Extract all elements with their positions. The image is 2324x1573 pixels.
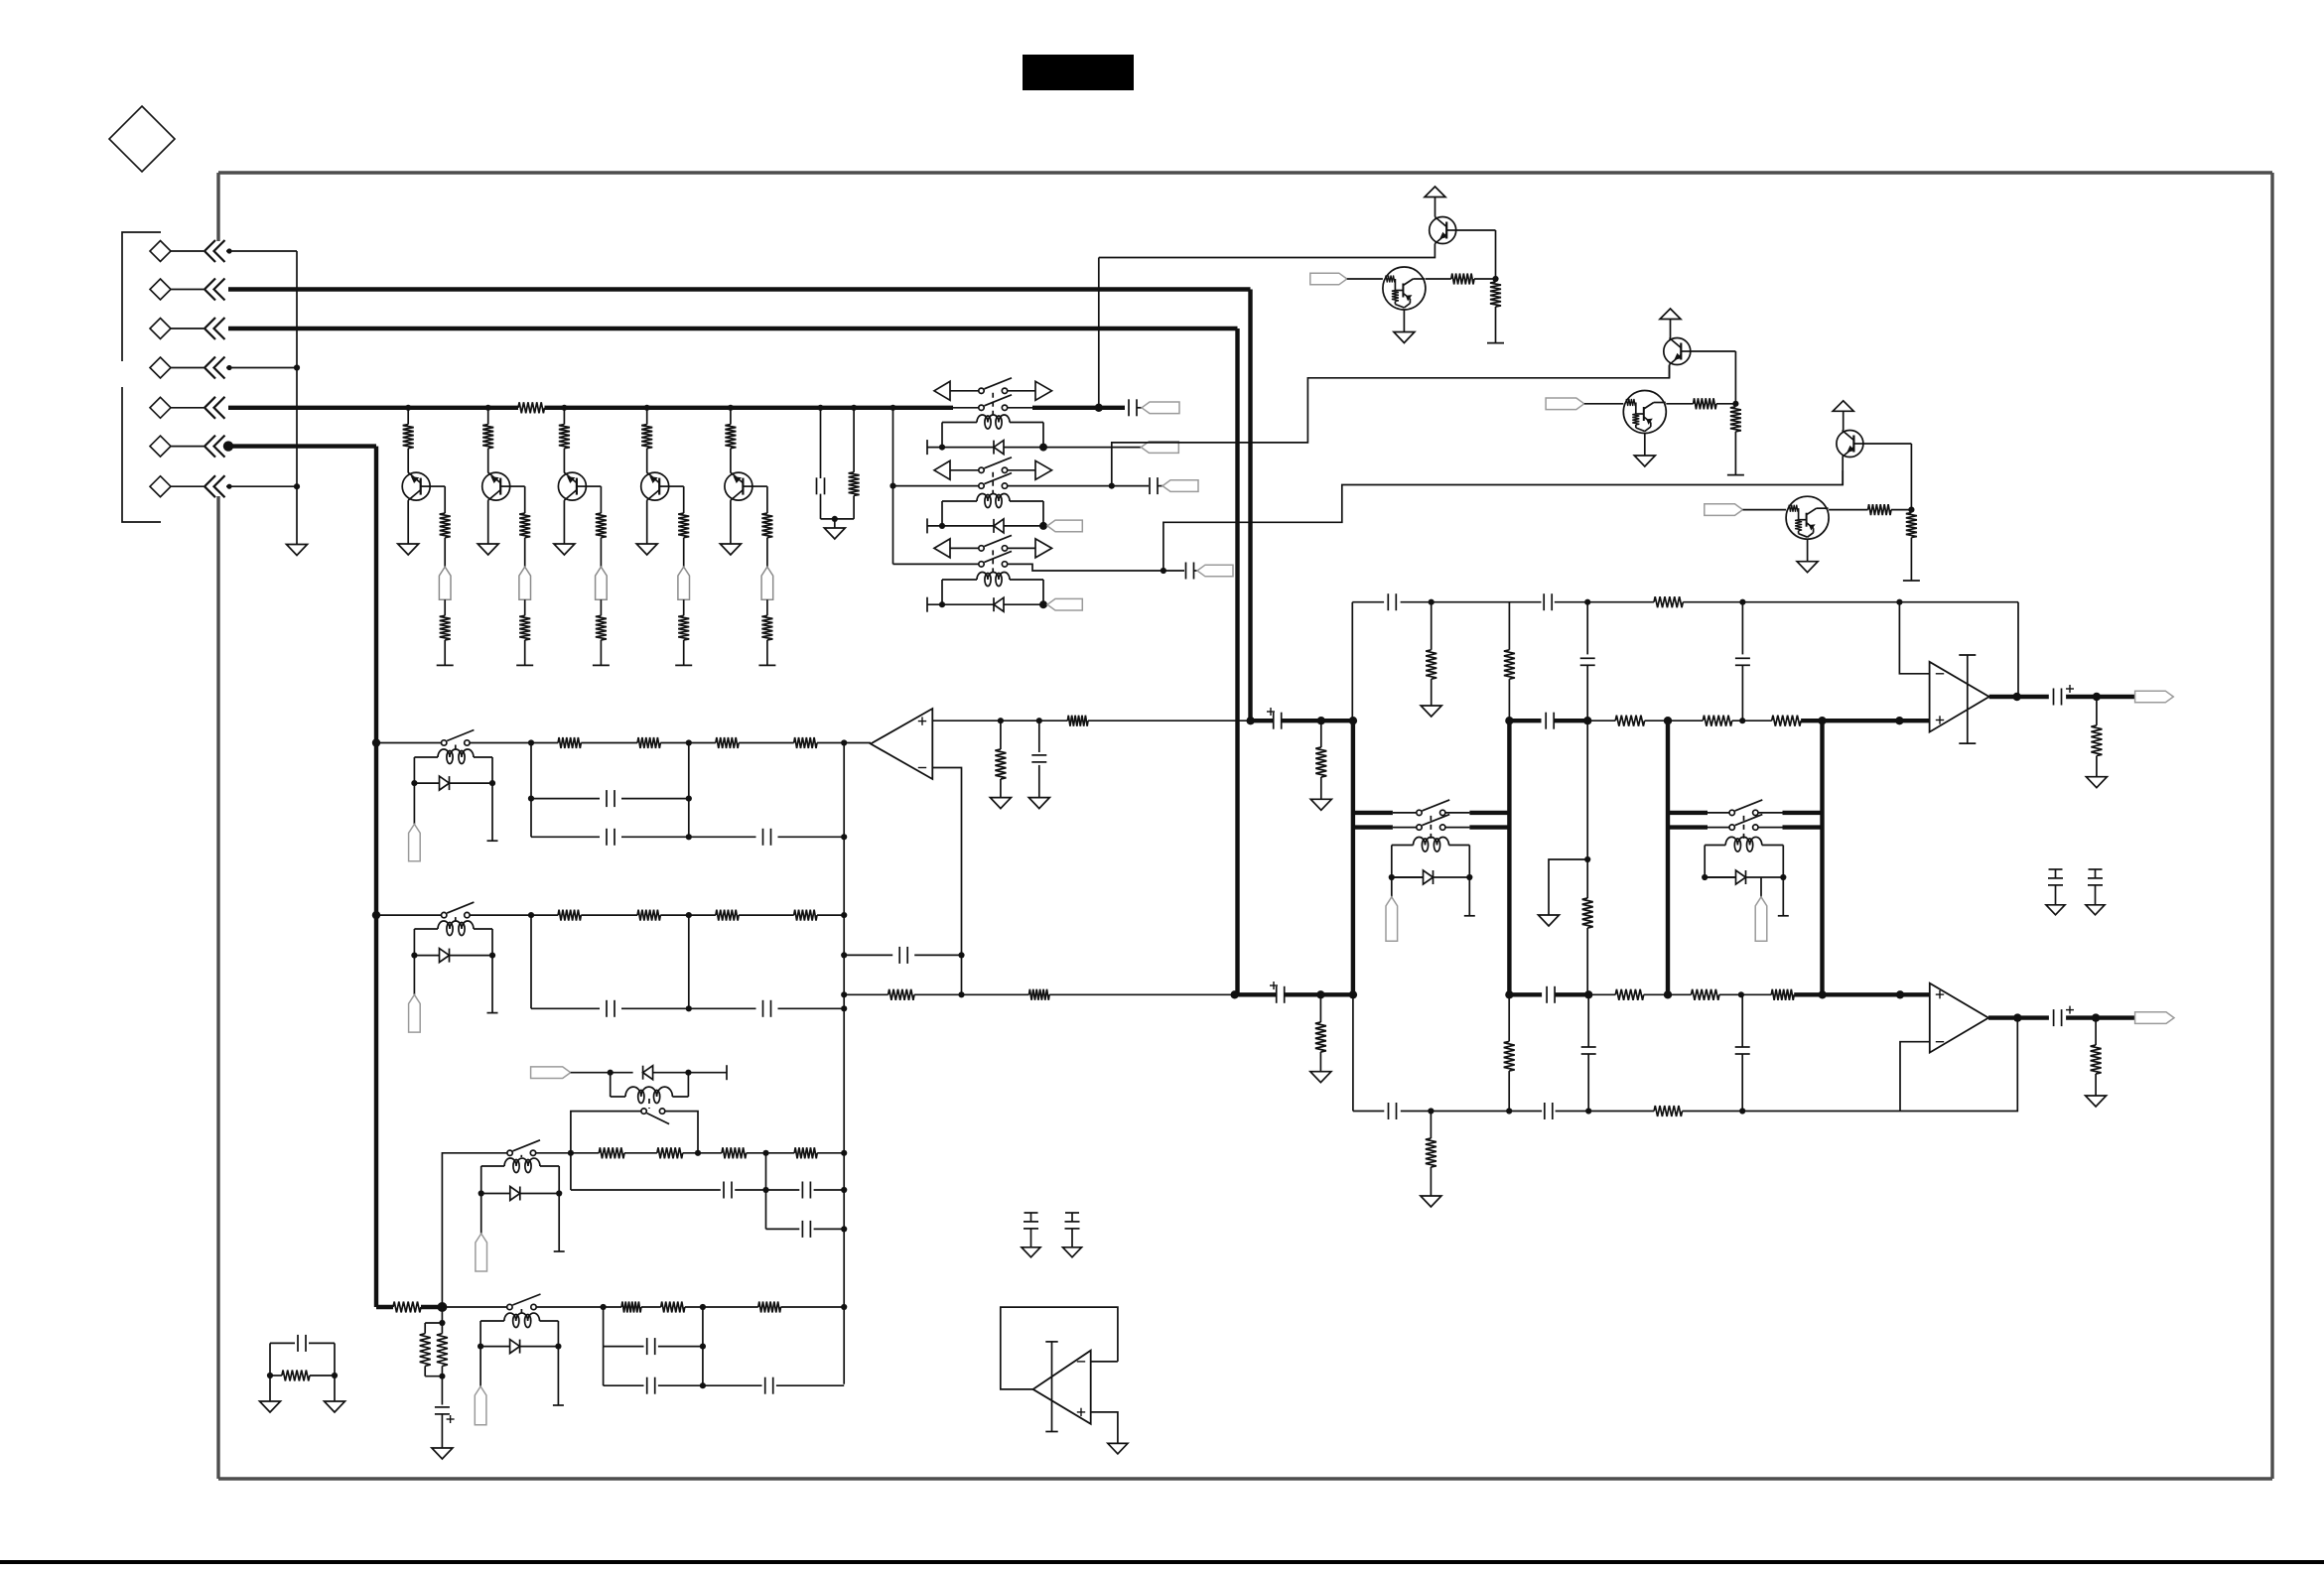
transistor Q3 bbox=[558, 472, 586, 500]
wire Re2-end bbox=[524, 640, 526, 666]
node row3 j0 bbox=[568, 1150, 574, 1156]
node row3 j4 bbox=[841, 1150, 847, 1156]
relay KF2 coil bbox=[1725, 837, 1762, 845]
relay KY coil bbox=[504, 1313, 540, 1321]
wire rowEQB start bbox=[376, 914, 442, 916]
wire Q21 emitter bbox=[1403, 310, 1405, 332]
wire up row thick a bbox=[1282, 719, 1353, 722]
terminal T2 bbox=[516, 664, 533, 666]
wire x1441 low branch bbox=[1430, 1112, 1432, 1139]
node K3 a bbox=[939, 601, 945, 607]
transistor Q1 bbox=[402, 472, 430, 500]
wire x1599 gnd arm bbox=[1549, 859, 1587, 915]
wire Q2 collector bbox=[510, 485, 525, 487]
wire U3 out (thick) bbox=[1988, 1015, 2049, 1019]
node bus Q1 bbox=[405, 405, 411, 411]
wire K3 diode row bbox=[927, 603, 994, 605]
wire row1 bbox=[226, 250, 297, 252]
node capr Y1 b bbox=[700, 1344, 706, 1350]
wire x707.9 link bbox=[702, 1307, 704, 1385]
diode D1 bbox=[994, 441, 1004, 455]
tag flag IN2 bbox=[1546, 398, 1584, 410]
tag KAs bbox=[409, 824, 421, 860]
ground G21 bbox=[1310, 1072, 1331, 1083]
node rc a bbox=[267, 1373, 273, 1378]
node capr L2 b bbox=[841, 1226, 847, 1232]
resistor RU1 bbox=[1067, 716, 1088, 726]
wire KF2 row2 (thick) bbox=[1668, 825, 1708, 829]
ground G50 bbox=[432, 1448, 453, 1459]
relay K2 dashed link bbox=[992, 472, 994, 493]
wire col x1362.9 (thick) bbox=[1351, 721, 1355, 994]
wire U2 out b (thick) bbox=[2066, 695, 2135, 699]
connector J1 pin 5 diamond bbox=[150, 397, 171, 418]
wire Q12 base bbox=[1691, 350, 1736, 352]
node low row j6 bbox=[1738, 991, 1744, 997]
wire C11-tag bbox=[1137, 407, 1142, 409]
wire RG41 bbox=[2095, 1018, 2097, 1045]
capacitor C12 bbox=[1149, 477, 1151, 494]
wire row2 drop (thick) bbox=[1248, 290, 1252, 721]
resistor Rc3 bbox=[596, 513, 607, 538]
wire row5 c bbox=[685, 1306, 758, 1308]
resistor Re4 bbox=[678, 615, 689, 640]
relay K3 frame bbox=[941, 580, 943, 604]
wire top row bbox=[1352, 601, 1384, 603]
node capr A2 m bbox=[686, 834, 692, 840]
wire arrows K2 bbox=[950, 469, 979, 471]
wire row4 bbox=[226, 367, 297, 369]
wire low row in (thick) bbox=[1235, 992, 1277, 996]
relay KY frame bbox=[479, 1321, 481, 1347]
wire row3 e bbox=[817, 1152, 844, 1154]
tag TP3 bbox=[1197, 565, 1233, 577]
wire capr L2 bbox=[766, 1228, 800, 1230]
wire U1 +row b bbox=[1088, 720, 1251, 721]
resistor RL1 bbox=[889, 989, 914, 1000]
wire KX left contact bbox=[571, 1112, 641, 1153]
op-amp U1 bbox=[871, 709, 932, 779]
wire x771 link bbox=[765, 1153, 767, 1230]
node bot row j3 bbox=[1585, 1108, 1591, 1114]
capacitor CL1 bbox=[723, 1182, 725, 1199]
wire KF1 row2 links bbox=[1393, 827, 1417, 829]
node row4/x299 bbox=[294, 364, 300, 370]
wire rowEQB d bbox=[739, 914, 794, 916]
node low row j7 bbox=[1819, 990, 1827, 998]
wire Q23 emitter bbox=[1807, 539, 1809, 562]
wire C13 lead bbox=[1163, 570, 1184, 572]
wire U4 +in bbox=[1091, 1412, 1118, 1443]
terminal T3 bbox=[593, 664, 610, 666]
relay KAs dashed bbox=[455, 745, 457, 750]
footer rule bbox=[0, 1560, 2324, 1564]
wire U3 out b (thick) bbox=[2066, 1015, 2135, 1019]
node KX b bbox=[685, 1070, 691, 1076]
tag OUT2 bbox=[2135, 1012, 2174, 1024]
connector J1 pin 2 wire bbox=[171, 289, 204, 291]
node N60 big bbox=[437, 1302, 447, 1312]
relay KBs frame bbox=[413, 929, 415, 956]
relay KY dashed bbox=[520, 1309, 522, 1313]
node low row j2 bbox=[1349, 990, 1357, 998]
wire opamp feed bbox=[844, 742, 871, 744]
switch KZ bbox=[507, 1150, 512, 1155]
node top row j3 bbox=[1739, 599, 1745, 605]
node row3 j2 bbox=[702, 1152, 704, 1154]
wire Q3 emitter bbox=[563, 500, 565, 544]
node div bottom bbox=[439, 1374, 445, 1379]
title block (black bar) bbox=[1023, 55, 1134, 90]
resistor R3c bbox=[722, 1147, 747, 1158]
wire F4-Re4 bbox=[683, 599, 685, 615]
wire C12-tag bbox=[1158, 485, 1162, 487]
node bus C-R b bbox=[851, 405, 857, 411]
terminal KY bbox=[553, 1404, 564, 1406]
node bot row j1 bbox=[1428, 1108, 1434, 1114]
switch KAs bbox=[442, 740, 447, 745]
diode DX bbox=[643, 1066, 653, 1080]
node rowEQA j2 bbox=[841, 739, 847, 745]
wire bus-switch link bbox=[953, 407, 979, 409]
node K2 b bbox=[1039, 522, 1047, 530]
wire KAs tag lead bbox=[413, 783, 415, 824]
diode DAs bbox=[440, 776, 450, 790]
wire capr Y1 bbox=[603, 1307, 605, 1347]
wire to ground G2 bbox=[834, 519, 836, 528]
wire KF1 diode row bbox=[1392, 876, 1427, 878]
wire up row d bbox=[1587, 720, 1615, 721]
node KBs a bbox=[411, 953, 417, 959]
ground G40 bbox=[2046, 905, 2065, 915]
connector J1 pin 4 diamond bbox=[150, 357, 171, 378]
wire div top bbox=[441, 1307, 443, 1323]
ground Q1 bbox=[398, 544, 419, 555]
node N11 bbox=[1492, 276, 1498, 282]
relay KBs dashed bbox=[455, 917, 457, 921]
wire rowEQB c bbox=[660, 914, 716, 916]
wire U2 fb right bbox=[2017, 602, 2019, 697]
node pin6 big dot bbox=[223, 441, 233, 451]
resistor R3a bbox=[599, 1147, 624, 1158]
switch K3 main bbox=[979, 562, 984, 567]
node U1 j2 bbox=[1036, 718, 1042, 723]
node KZ b bbox=[556, 1190, 562, 1196]
tag KY bbox=[475, 1386, 486, 1425]
wire row6 (thick) bbox=[228, 444, 376, 448]
node bot row j4 bbox=[1739, 1108, 1745, 1114]
relay KX frame bbox=[610, 1073, 612, 1097]
switch K1 main bbox=[979, 405, 984, 410]
switch KF2 s1 bbox=[1729, 810, 1734, 815]
wire KBs tbar lead bbox=[491, 956, 493, 1013]
jumper F1 bbox=[439, 567, 451, 599]
node row5 j1 bbox=[601, 1304, 607, 1310]
node up row j4b bbox=[1505, 717, 1513, 724]
resistor RL2 bbox=[1029, 989, 1050, 1000]
relay KF2 dashed bbox=[1743, 816, 1745, 839]
connector J1 pin 2 diamond bbox=[150, 279, 171, 300]
wire low row thick b bbox=[1509, 992, 1542, 996]
switch KY bbox=[507, 1304, 512, 1309]
wire K3 row bbox=[893, 563, 980, 565]
connector J1 pin 6 chevrons bbox=[205, 436, 215, 458]
node KY b bbox=[555, 1344, 561, 1350]
digital transistor Q22 bbox=[1623, 391, 1666, 434]
relay K2 frame bbox=[941, 501, 943, 526]
wire R11b tail bbox=[1495, 307, 1497, 343]
wire R10 lead bbox=[853, 408, 855, 472]
wire Q5 collector bbox=[752, 485, 767, 487]
wire Rc1-F1 bbox=[444, 538, 446, 567]
wire C13-tag bbox=[1194, 570, 1197, 572]
tag flag IN3 bbox=[1705, 504, 1743, 516]
wire rowEQA d bbox=[739, 742, 794, 744]
connector J1 pin 4 chevrons bbox=[205, 357, 215, 379]
node rowEQB j1 bbox=[528, 912, 534, 918]
wire x1755 upper link bbox=[1741, 602, 1743, 655]
node up row j1 bbox=[1317, 717, 1325, 724]
switch KF1 s1 bbox=[1417, 810, 1422, 815]
wire x1362.9 low link bbox=[1352, 994, 1354, 1111]
wire rowEQA e bbox=[817, 742, 844, 744]
wire KBs diode row bbox=[414, 955, 440, 957]
resistor R60 bbox=[393, 1302, 421, 1313]
node rowEQB feed bbox=[372, 911, 380, 919]
ground G13 bbox=[1797, 562, 1818, 573]
relay KF2 frame bbox=[1704, 846, 1706, 878]
diode DKF1 bbox=[1392, 876, 1424, 878]
node row7/x299 bbox=[294, 483, 300, 489]
wire Re1-end bbox=[444, 640, 446, 666]
wire KF1 tbar bbox=[1468, 877, 1470, 916]
wire bus row5 left (thick) bbox=[228, 406, 518, 410]
relay KZ frame bbox=[480, 1166, 482, 1194]
connector J1 pin 4 wire bbox=[171, 367, 204, 369]
tag KF2 bbox=[1760, 877, 1762, 897]
wire up row thick g bbox=[1801, 719, 1930, 722]
capacitor CG51 bbox=[1071, 1213, 1073, 1222]
wire R10 bottom bbox=[853, 495, 855, 519]
wire Q5 emitter bbox=[730, 500, 732, 544]
relay KX dashed bbox=[648, 1099, 650, 1109]
resistor R23 bbox=[1772, 716, 1801, 726]
resistor RAd bbox=[794, 737, 817, 748]
diode D3 bbox=[994, 597, 1004, 611]
capacitor C11 bbox=[1128, 399, 1130, 416]
resistor R11b bbox=[1490, 282, 1501, 307]
wire row6 to node (thick) bbox=[421, 1305, 442, 1309]
capacitor C30 bbox=[1387, 593, 1389, 610]
tag TP1 bbox=[1142, 402, 1179, 414]
node up row j2 bbox=[1349, 717, 1357, 724]
node KF1 b bbox=[1466, 874, 1472, 880]
relay K2 coil bbox=[977, 494, 1010, 501]
op-amp U4 bbox=[1033, 1351, 1091, 1424]
wire U2 out (thick) bbox=[1989, 695, 2049, 699]
wire U3 fb right bbox=[1900, 1018, 2017, 1112]
wire row3 c bbox=[683, 1152, 722, 1154]
wire row6 drop (thick) bbox=[374, 447, 378, 1307]
node bus Q5 bbox=[728, 405, 734, 411]
wire Q1 collector bbox=[430, 485, 445, 487]
resistor R5a bbox=[621, 1302, 641, 1313]
terminal KX bbox=[726, 1065, 728, 1080]
wire K3 ctrl riser bbox=[1163, 470, 1843, 571]
node capr A1 b bbox=[686, 796, 692, 802]
capacitor C31 bbox=[1543, 593, 1545, 610]
node lower row m bbox=[958, 991, 964, 997]
wire K1 diode row bbox=[927, 447, 994, 449]
wire to C50 bbox=[441, 1376, 443, 1405]
connector J1 pin 1 chevrons bbox=[205, 240, 215, 262]
relay KAs frame bbox=[413, 757, 415, 783]
wire vert x850 bbox=[843, 743, 845, 1384]
arrow right K1 bbox=[1035, 381, 1052, 400]
node capr Y2 b bbox=[843, 1383, 845, 1385]
wire row3 start bbox=[442, 1153, 507, 1307]
connector J1 pin 3 wire bbox=[171, 328, 204, 329]
resistor R31 bbox=[1654, 1106, 1682, 1116]
wire KAs tbar lead bbox=[491, 783, 493, 841]
wire KZ tbar lead bbox=[558, 1194, 560, 1252]
wire Re5-end bbox=[766, 640, 768, 666]
node KAs b bbox=[489, 780, 495, 786]
tag flag IN1 bbox=[1310, 273, 1347, 285]
wire row6 bottom (thick) bbox=[376, 1305, 393, 1309]
terminal KBs bbox=[487, 1012, 498, 1014]
relay KF1 coil bbox=[1414, 838, 1449, 846]
terminal T4 bbox=[675, 664, 692, 666]
node capr L1 b bbox=[841, 1187, 847, 1193]
node bus C-R a bbox=[817, 405, 823, 411]
wire col x1835.5 (thick) bbox=[1820, 721, 1824, 994]
wire KBs tag lead bbox=[413, 956, 415, 995]
resistor Rb5 bbox=[730, 408, 732, 425]
ground G40 bbox=[2086, 777, 2107, 788]
wire row5 d bbox=[781, 1306, 845, 1308]
arrow right K3 bbox=[1035, 539, 1052, 558]
wire rowEQB e bbox=[817, 914, 844, 916]
node up row j3 bbox=[1583, 717, 1591, 724]
wire rowEQA start bbox=[376, 742, 442, 744]
resistor RBd bbox=[794, 910, 817, 921]
wire rowEQB b bbox=[581, 914, 637, 916]
wire low row thick c bbox=[1556, 992, 1589, 996]
connector J1 bracket bbox=[122, 232, 161, 361]
wire Rc3-F3 bbox=[600, 538, 602, 567]
node div top bbox=[439, 1320, 445, 1326]
wire div bracket top bbox=[425, 1322, 442, 1324]
ground Q3 bbox=[554, 544, 575, 555]
wire F5-Re5 bbox=[766, 599, 768, 615]
resistor R30 bbox=[1654, 596, 1683, 607]
capacitor C50+ bbox=[435, 1406, 450, 1408]
wire low row d bbox=[1588, 993, 1615, 995]
ground G12 bbox=[1634, 456, 1655, 466]
wire Re4-end bbox=[683, 640, 685, 666]
wire lower row c bbox=[1049, 993, 1235, 995]
resistor R26 bbox=[1771, 989, 1794, 1000]
relay KAs coil bbox=[438, 749, 474, 757]
arrow right K2 bbox=[1035, 460, 1052, 479]
node up row j6 bbox=[1818, 717, 1826, 724]
wire row3 drop (thick) bbox=[1235, 328, 1239, 994]
ground G11 bbox=[1394, 332, 1415, 343]
capacitor C23 bbox=[1546, 986, 1548, 1003]
wire RG20 bbox=[1320, 721, 1322, 747]
wire up row in (thick) bbox=[1251, 719, 1274, 722]
node rowEQB m bbox=[686, 912, 692, 918]
capacitor C10 bbox=[816, 477, 818, 494]
node bus Q4 bbox=[644, 405, 650, 411]
node rowEQB j2 bbox=[841, 912, 847, 918]
node capr B1 b bbox=[841, 1005, 847, 1011]
wire lower row bbox=[844, 993, 888, 995]
wire rowEQA b bbox=[581, 742, 637, 744]
wire KZ tag lead bbox=[480, 1194, 482, 1235]
wire x1599 upper link bbox=[1586, 602, 1588, 655]
ground G50 bbox=[1022, 1247, 1040, 1257]
diode D2 bbox=[994, 519, 1004, 533]
terminal T12 bbox=[1727, 474, 1744, 476]
arrow left K2 bbox=[934, 460, 950, 479]
connector J1 pin 2 chevrons bbox=[205, 279, 215, 301]
node fb cap a bbox=[841, 952, 847, 958]
resistor Re2 bbox=[519, 615, 530, 640]
node low row j5 bbox=[1664, 990, 1672, 998]
resistor Rc2 bbox=[519, 513, 530, 538]
wire bus after switch (thick) bbox=[1032, 406, 1125, 410]
wire bus row5 right (thick) bbox=[545, 406, 954, 410]
wire vert x535 B bbox=[530, 915, 532, 1008]
ground G41 bbox=[2086, 905, 2105, 915]
wire rowEQA c bbox=[660, 742, 716, 744]
transistor Q12 bbox=[1664, 338, 1691, 365]
wire vert x693.8 B bbox=[688, 915, 690, 1008]
capacitor CL2 bbox=[801, 1182, 803, 1199]
resistor Rc5 bbox=[761, 513, 772, 538]
resistor Re5 bbox=[761, 615, 772, 640]
resistor Rb2 bbox=[487, 408, 489, 425]
node KF2 a bbox=[1702, 874, 1708, 880]
node row3 j1 bbox=[695, 1150, 701, 1156]
capacitor CG40 bbox=[2055, 869, 2057, 878]
node up row j7 bbox=[1895, 717, 1903, 724]
wire rc top bbox=[270, 1342, 295, 1344]
wire KX row bbox=[571, 1072, 633, 1074]
wire x1441 branch bbox=[1431, 602, 1433, 650]
capacitor CFB bbox=[898, 947, 900, 964]
wire up row f bbox=[1732, 720, 1772, 721]
jumper F5 bbox=[761, 567, 773, 599]
op-amp U3 bbox=[1930, 983, 1988, 1053]
wire U1 +row bbox=[932, 720, 1067, 721]
transistor Q11 bbox=[1430, 217, 1456, 244]
wire F1-Re1 bbox=[444, 599, 446, 615]
node rc b bbox=[332, 1373, 338, 1378]
op-amp U2 bbox=[1930, 662, 1989, 732]
resistor Rb4 bbox=[646, 408, 648, 425]
terminal KZ bbox=[554, 1250, 565, 1252]
relay K3 dashed link bbox=[992, 550, 994, 572]
wire up row thick b bbox=[1509, 719, 1541, 722]
transistor Q4 bbox=[641, 472, 669, 500]
node top row j4 bbox=[1896, 599, 1902, 605]
node low row j8 bbox=[1896, 990, 1904, 998]
capacitor C20+ bbox=[1273, 713, 1275, 729]
node KF2 b bbox=[1780, 874, 1786, 880]
